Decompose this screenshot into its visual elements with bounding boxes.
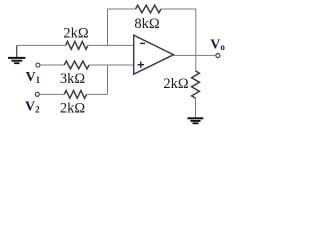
- resistor 3k zigzag: [64, 61, 89, 69]
- svg-text:2kΩ: 2kΩ: [63, 26, 89, 42]
- wire feedback right vertical: [195, 9, 197, 55]
- terminal V2: [35, 92, 39, 96]
- resistor 2k load vertical zigzag: [192, 71, 200, 98]
- ground left bars: [8, 58, 25, 63]
- wire V2 to R 2k: [40, 93, 65, 95]
- wire right vertical to load: [195, 55, 197, 71]
- op-amp plus sign: [138, 64, 144, 66]
- wire R2k to op-amp minus input: [88, 44, 134, 46]
- terminal V1: [36, 63, 40, 67]
- terminal Vo: [216, 54, 220, 58]
- op-amp minus sign: [140, 42, 145, 44]
- ground left stem: [16, 45, 18, 57]
- svg-text:V1: V1: [26, 70, 41, 85]
- resistor 2k bottom zigzag: [64, 91, 86, 99]
- svg-text:8kΩ: 8kΩ: [134, 16, 160, 32]
- op-amp U1 triangle: [134, 35, 174, 74]
- svg-text:2kΩ: 2kΩ: [60, 101, 86, 117]
- wire op-amp output: [174, 54, 216, 56]
- svg-text:V2: V2: [25, 100, 40, 115]
- wire R3k to op-amp plus input: [89, 64, 134, 66]
- wire R2k to junction: [87, 93, 108, 95]
- svg-text:3kΩ: 3kΩ: [60, 71, 86, 87]
- resistor 2k inverting-input zigzag: [66, 42, 88, 50]
- svg-text:2kΩ: 2kΩ: [163, 76, 189, 92]
- wire feedback left vertical: [107, 9, 109, 45]
- wire junction vertical up to plus row: [107, 65, 109, 94]
- resistor 8k feedback zigzag: [136, 5, 161, 13]
- svg-text:Vo: Vo: [210, 38, 225, 53]
- wire load to ground: [195, 98, 197, 117]
- wire top feedback to right: [161, 8, 196, 10]
- wire V1 to R 3k: [40, 64, 64, 66]
- wire top feedback horizontal: [108, 8, 136, 10]
- ground bottom bars: [188, 118, 204, 123]
- wire ground to R 2k: [17, 44, 66, 46]
